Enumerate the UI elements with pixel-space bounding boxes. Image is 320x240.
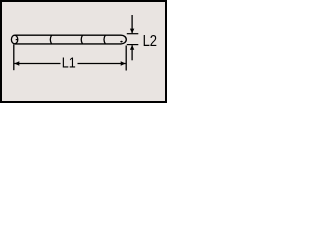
tube body (capsule outline) [15,35,126,44]
L1 dimension line left segment [14,63,60,65]
L1 left extension line [13,44,15,70]
tube segment arc 3 [104,35,105,44]
tube segment arc 2 [81,35,82,44]
frame border [1,1,166,102]
svg-text:L1: L1 [62,53,76,70]
L1 dimension line right segment [78,63,126,65]
background [0,0,167,103]
tube left end face (ellipse) [11,35,17,44]
L2 lower dimension line [131,45,133,60]
L1 right arrowhead [121,61,126,66]
L2 upper arrowhead (points down) [130,29,134,34]
svg-text:L2: L2 [143,33,158,50]
L2 lower arrowhead (points up) [130,45,134,50]
L1 left arrowhead [14,61,19,66]
exhaust tip dot in right cap [120,41,122,43]
L2 upper dimension line [131,15,133,33]
L1 right extension line [125,46,127,71]
tube left end tip dash [16,39,18,41]
L2 top extension line [127,33,139,35]
tube segment arc 1 [50,35,51,44]
L2 bottom extension line [127,44,139,46]
